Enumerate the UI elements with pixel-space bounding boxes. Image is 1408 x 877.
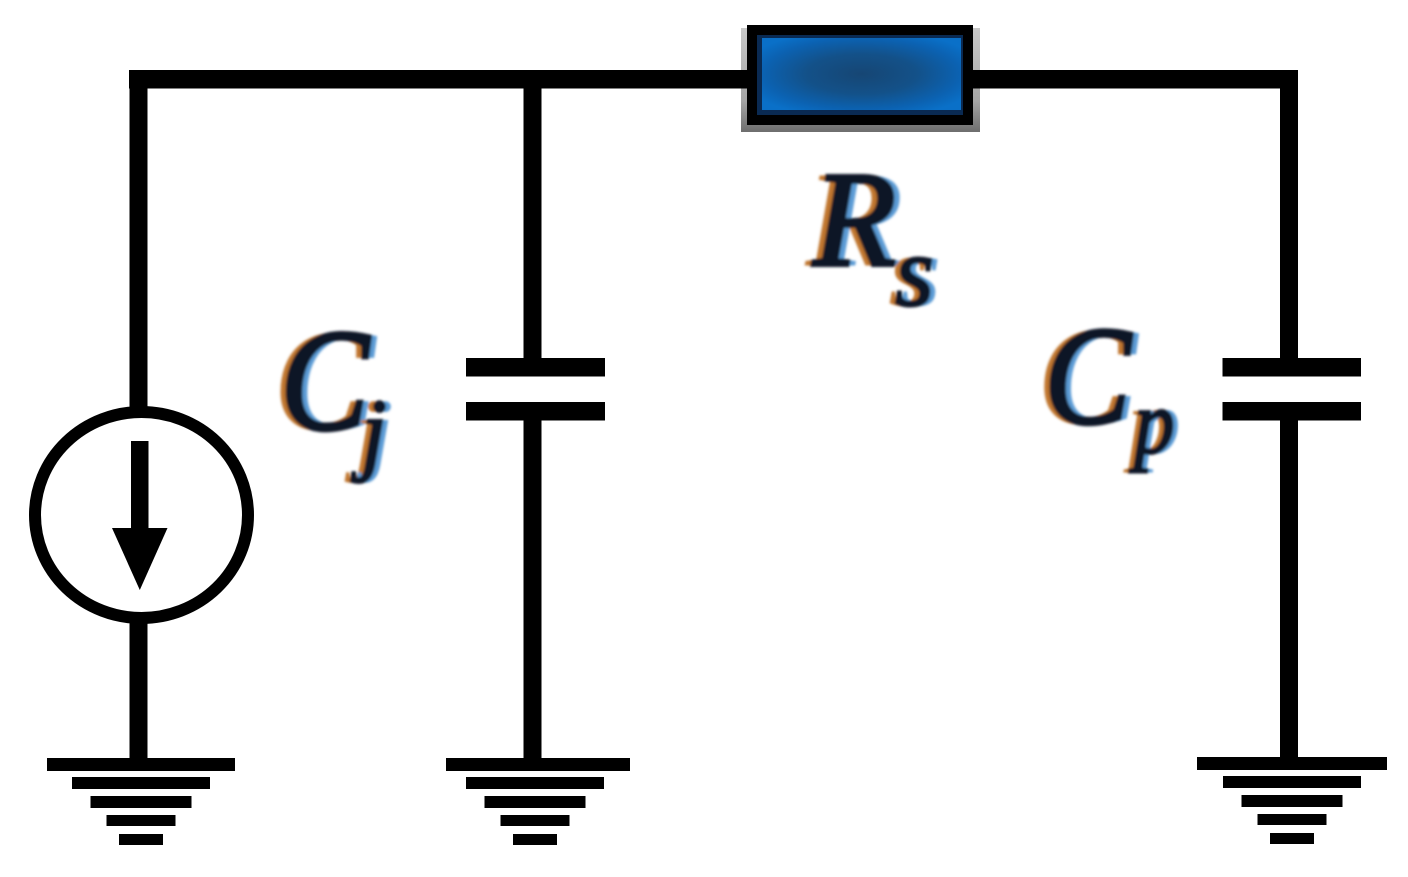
current source I1 xyxy=(35,412,248,618)
ground middle xyxy=(446,758,630,845)
wire middle vertical top xyxy=(524,88,542,360)
svg-text:R: R xyxy=(812,145,896,295)
svg-text:s: s xyxy=(895,216,934,327)
wire right vertical bottom xyxy=(1280,418,1298,759)
svg-text:C: C xyxy=(1044,300,1133,454)
svg-text:p: p xyxy=(1128,373,1174,473)
capacitor Cp plates xyxy=(1223,358,1362,421)
wire middle vertical bottom xyxy=(524,418,542,760)
wire top-left segment xyxy=(129,70,748,89)
wire left vertical (top node to current source) xyxy=(130,70,148,410)
wire right vertical top xyxy=(1280,70,1298,360)
label Cj xyxy=(274,301,393,483)
ground right xyxy=(1197,757,1387,844)
resistor Rs body xyxy=(741,25,980,132)
wire top-right segment xyxy=(973,70,1298,89)
label Rs xyxy=(805,145,940,327)
label Cp xyxy=(1037,300,1179,473)
ground left xyxy=(47,758,235,845)
capacitor Cj plates xyxy=(466,358,605,421)
wire current source to ground xyxy=(130,618,148,760)
